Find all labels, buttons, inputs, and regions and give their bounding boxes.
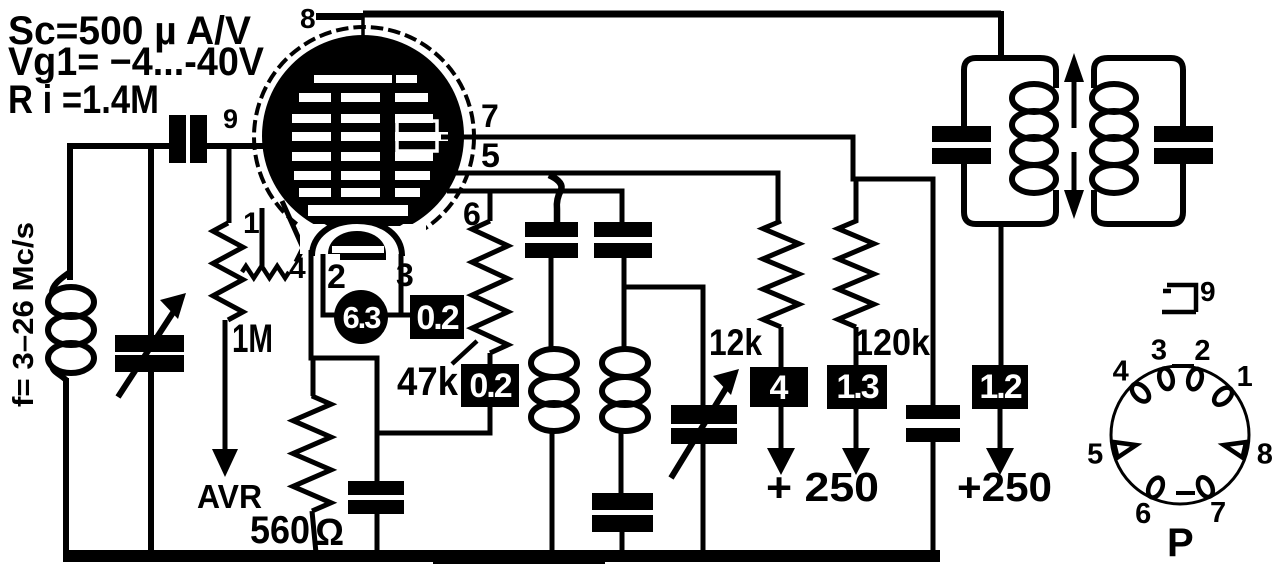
variable capacitor: antenna tuning capacitor	[115, 335, 184, 352]
svg-text:7: 7	[1210, 497, 1226, 529]
resistor 120k screen feed	[838, 179, 874, 365]
capacitor: IF primary tuning cap	[932, 126, 991, 142]
capacitor: oscillator cap C5	[525, 222, 578, 237]
wire: heater pin 3 leg	[401, 254, 410, 315]
resistor 560 ohm cathode resistor	[293, 358, 331, 553]
svg-text:47k: 47k	[397, 360, 459, 404]
wire: antenna tank top from coil to coupling cap	[70, 146, 170, 280]
inductor: IF secondary coil	[1092, 84, 1136, 193]
svg-text:6: 6	[1135, 498, 1151, 530]
socket pin 7	[1195, 475, 1216, 500]
capacitor: IF secondary tuning cap	[1154, 126, 1213, 142]
inductor: antenna coil L1	[48, 272, 94, 380]
wire: pin 8 plate lead and top rail	[316, 14, 1001, 17]
capacitor: oscillator series cap C7	[592, 493, 653, 510]
tuning arrows	[1064, 53, 1084, 82]
wire: tuning cap branch	[148, 146, 154, 336]
socket pin 2	[1186, 367, 1204, 391]
svg-text:+ 250: + 250	[766, 464, 879, 510]
socket pin 1	[1211, 384, 1235, 408]
socket pin 6	[1145, 475, 1166, 500]
socket pin 3	[1157, 367, 1175, 391]
svg-text:6.3: 6.3	[342, 300, 381, 335]
wire: L3 bottom to series cap C7	[619, 430, 624, 493]
IF transformer secondary tank loop	[1094, 58, 1183, 224]
inductor: oscillator coil L3	[602, 349, 648, 431]
wire: jog from pin 5 wire to oscillator cap C5	[549, 175, 562, 222]
svg-text:9: 9	[223, 104, 238, 134]
heater voltage disc 6.3	[334, 290, 388, 344]
svg-text:0.2: 0.2	[416, 299, 458, 337]
arrow to +250	[779, 407, 784, 450]
svg-text:5: 5	[1087, 439, 1103, 471]
wire: cathode lead down to RC	[311, 250, 377, 481]
current box 1.3	[827, 365, 887, 409]
socket pin 5	[1114, 442, 1136, 458]
IF transformer primary tank loop	[964, 58, 1056, 224]
internal connection squiggle at pin 4	[242, 266, 289, 278]
current box 4	[750, 367, 808, 407]
wire: pin 7 screen lead to 120k node	[441, 137, 933, 405]
svg-text:1: 1	[1237, 361, 1253, 393]
svg-text:8: 8	[1257, 439, 1273, 471]
svg-text:P: P	[1167, 521, 1194, 565]
wire: AVR line drop from grid wire	[227, 146, 232, 223]
svg-text:1: 1	[243, 207, 260, 240]
inductor: oscillator coil L2	[531, 349, 577, 431]
wire: cathode cap to ground rail	[375, 514, 380, 553]
capacitor: screen bypass	[906, 405, 960, 419]
svg-text:1M: 1M	[232, 317, 273, 361]
variable capacitor: oscillator trimmer	[671, 405, 737, 424]
heater current box 0.2	[410, 295, 464, 339]
svg-text:1.2: 1.2	[979, 368, 1021, 406]
wire: pin 1 stub	[260, 208, 265, 266]
grid current box 0.2	[461, 364, 519, 407]
svg-text:12k: 12k	[709, 322, 762, 363]
svg-text:5: 5	[481, 137, 500, 175]
tube cathode dome	[312, 221, 402, 256]
wire: 47k bottom to cathode node	[378, 353, 490, 433]
wire: 47k grid leak drop	[488, 191, 493, 221]
tube base top-cap symbol pin 9	[1162, 285, 1196, 312]
ground rail (chassis)	[63, 550, 940, 562]
arrow to AVR	[223, 320, 228, 452]
wire: heater pin 2 leg	[323, 254, 336, 315]
svg-text:8: 8	[300, 3, 316, 34]
svg-text:Ω: Ω	[315, 512, 344, 554]
svg-text:1.3: 1.3	[836, 368, 878, 406]
svg-text:4: 4	[770, 369, 789, 407]
resistor 47k oscillator grid leak	[472, 221, 508, 353]
capacitor: grid coupling capacitor	[169, 115, 186, 163]
socket pin 8	[1224, 442, 1246, 458]
current box 1.2	[972, 365, 1028, 409]
svg-text:+250: +250	[957, 464, 1052, 510]
svg-text:2: 2	[1194, 335, 1210, 367]
wire: L2 bottom to ground rail	[550, 430, 555, 553]
svg-text:4: 4	[1113, 355, 1129, 387]
wire: trimmer to ground rail	[701, 444, 706, 553]
wire: pin 6 oscillator grid lead	[447, 191, 622, 222]
socket key marks	[1172, 366, 1195, 493]
arrow to +250	[854, 409, 859, 450]
socket pin 4	[1128, 380, 1152, 404]
svg-text:7: 7	[481, 98, 499, 134]
svg-text:0.2: 0.2	[469, 367, 511, 405]
wire: C5 to oscillator coil L2	[549, 258, 554, 350]
svg-text:560: 560	[250, 509, 310, 552]
svg-text:9: 9	[1200, 276, 1216, 307]
wire: pin 5 oscillator anode lead to 12k	[452, 173, 778, 221]
capacitor: cathode bypass	[348, 481, 404, 495]
resistor 1M grid leak	[213, 223, 243, 320]
vacuum tube envelope (pentagrid converter)	[254, 27, 474, 254]
svg-text:f= 3–26 Mc/s: f= 3–26 Mc/s	[8, 222, 40, 407]
arrow to +250 (anode supply)	[998, 409, 1003, 450]
wire: antenna coil bottom to ground rail	[63, 378, 69, 553]
ground rail scan thickening	[433, 557, 605, 564]
capacitor: oscillator cap C6	[594, 222, 652, 237]
svg-text:2: 2	[327, 258, 346, 296]
wire: oscillator tap to trimmer	[626, 287, 703, 405]
wire: IF primary bottom to current box	[999, 224, 1004, 365]
svg-text:3: 3	[1151, 335, 1167, 367]
svg-text:R i =1.4M: R i =1.4M	[8, 78, 159, 122]
wire: C6 to oscillator coil L3	[622, 258, 627, 350]
tube socket base diagram	[1111, 366, 1249, 504]
resistor 12k oscillator anode feed	[763, 221, 799, 327]
wire: grid coupling cap to tube pin 9	[207, 143, 270, 149]
svg-text:120k: 120k	[854, 322, 930, 363]
wire: pin 4 diagonal lead	[282, 201, 303, 262]
inductor: IF primary coil	[1012, 84, 1056, 193]
